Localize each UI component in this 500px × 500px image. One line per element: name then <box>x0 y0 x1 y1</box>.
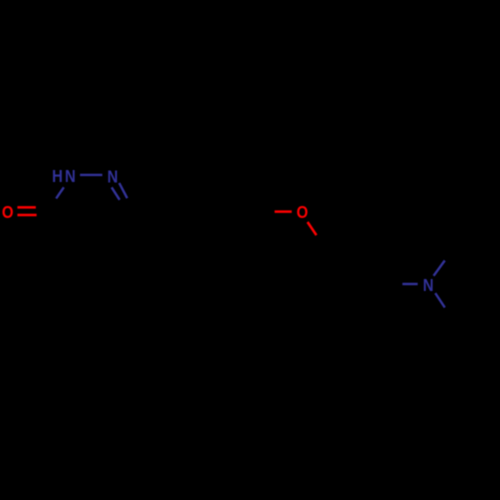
bond N-CH3 lower (blue half) <box>435 293 445 307</box>
svg-text:O: O <box>2 203 14 222</box>
bond N1-N2 <box>80 174 102 176</box>
svg-text:N: N <box>65 167 76 186</box>
bond N-CH3 upper (blue half) <box>434 261 445 276</box>
C=O double bond (red half), bottom line <box>17 214 36 217</box>
svg-text:N: N <box>107 167 118 186</box>
bond O-phenyl (red half) <box>275 210 292 213</box>
bond N-CH2 chain (blue half) <box>402 283 417 285</box>
svg-text:N: N <box>423 276 434 295</box>
bond N2=C3 inner line (blue half) <box>112 187 120 199</box>
svg-text:H: H <box>52 167 63 186</box>
bond O-CH2 (red half) <box>308 222 317 235</box>
svg-text:O: O <box>297 203 309 222</box>
bond N1-C6 (blue half) <box>56 187 64 198</box>
bond N2=C3 main line (blue half) <box>119 183 127 198</box>
C=O double bond (red half), top line <box>17 206 35 209</box>
